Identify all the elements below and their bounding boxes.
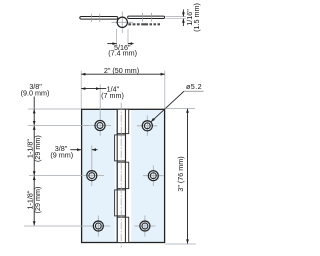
- leaf B inner edge: [116, 109, 118, 242]
- dimension 2in (50 mm) width: [81, 66, 165, 108]
- dimension 1-1/8in (29 mm) upper pitch: [26, 126, 42, 176]
- knuckle circle crosshair: [112, 12, 134, 34]
- dimension 1/4in (7 mm) hole offset: [81, 85, 124, 101]
- hole BR crosshair: [135, 216, 156, 237]
- hole BL crosshair: [24, 216, 110, 237]
- dimension 5/16in (7.4 mm) knuckle diameter: [107, 29, 137, 58]
- right leaf hole tick 1: [142, 13, 144, 22]
- hole TR crosshair: [137, 116, 157, 136]
- knuckle segment 3: [117, 162, 129, 188]
- right plate fill: [131, 109, 164, 242]
- knuckle segment 2: [115, 135, 126, 161]
- folded leaf hidden dashes: [128, 23, 161, 25]
- left leaf bar: [80, 17, 118, 20]
- svg-text:(1.5 mm): (1.5 mm): [192, 3, 201, 32]
- leaf A inner edge: [124, 109, 126, 242]
- hole TL crosshair: [85, 84, 111, 136]
- pin centerline: [120, 103, 122, 248]
- svg-text:(7.4 mm): (7.4 mm): [108, 49, 137, 58]
- right leaf bar: [128, 16, 165, 18]
- hole MR crosshair: [143, 166, 164, 187]
- plate outline: [82, 109, 165, 242]
- knuckle circle: [117, 17, 127, 27]
- svg-text:ø5.2: ø5.2: [186, 82, 202, 91]
- hole ML: [87, 171, 97, 181]
- hole BR: [140, 221, 150, 231]
- hole MR: [148, 171, 158, 181]
- hole BL: [93, 221, 103, 231]
- svg-text:(7 mm): (7 mm): [101, 91, 124, 100]
- left leaf hole tick 1: [91, 14, 93, 22]
- knuckle segment 5: [117, 217, 129, 242]
- svg-text:(9.0 mm): (9.0 mm): [21, 88, 50, 97]
- hole TR: [142, 121, 152, 131]
- hole TL: [95, 120, 105, 130]
- svg-text:2" (50 mm): 2" (50 mm): [104, 66, 139, 75]
- dimension 1/16in (1.5 mm) leaf thickness: [166, 3, 201, 32]
- knuckle segment 1: [117, 109, 129, 133]
- left leaf hole tick 2: [99, 14, 101, 22]
- svg-text:(9 mm): (9 mm): [50, 150, 73, 159]
- left plate fill: [82, 109, 115, 242]
- leader dia 5.2 hole callout: [151, 82, 204, 122]
- dimension 3in (76 mm) height: [165, 109, 196, 244]
- svg-text:3" (76 mm): 3" (76 mm): [176, 156, 185, 191]
- knuckle segment 4: [115, 190, 126, 216]
- dimension 3/8in (9 mm) middle hole offset: [50, 144, 97, 159]
- hole ML crosshair: [29, 146, 104, 187]
- dimension 1-1/8in (29 mm) lower pitch: [26, 176, 42, 226]
- dimension 3/8in (9.0 mm) top margin: [21, 82, 89, 126]
- svg-text:(29 mm): (29 mm): [33, 135, 42, 162]
- right leaf hole tick 2: [150, 13, 152, 22]
- svg-text:(29 mm): (29 mm): [33, 187, 42, 214]
